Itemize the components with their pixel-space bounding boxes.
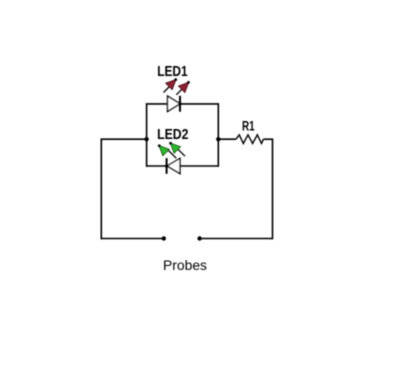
LED1 emission arrows (red) bbox=[164, 78, 190, 95]
LED2 emission arrows (green) bbox=[158, 142, 185, 158]
wire: LED box left side bbox=[146, 103, 148, 167]
wire: left vertical branch bbox=[100, 138, 102, 239]
wire: right vertical branch bbox=[272, 138, 274, 239]
svg-text:LED2: LED2 bbox=[157, 127, 188, 143]
resistor R1 zigzag bbox=[236, 135, 263, 144]
node B: junction dot right of LED pair bbox=[216, 137, 220, 141]
LED1 diode body bbox=[168, 96, 182, 112]
svg-text:R1: R1 bbox=[242, 119, 255, 135]
LED2 diode body bbox=[165, 158, 180, 174]
wire: bottom left segment to left probe bbox=[101, 238, 164, 240]
svg-text:LED1: LED1 bbox=[157, 64, 187, 80]
probe terminal dot left bbox=[162, 236, 166, 240]
node A: junction dot left of LED pair bbox=[144, 137, 148, 141]
wire: LED box right side bbox=[217, 103, 219, 167]
wire: bottom right segment from right probe bbox=[200, 238, 273, 240]
wire: LED box top side bbox=[147, 103, 219, 105]
wire: middle left lead from left branch to LED box bbox=[101, 138, 146, 140]
probe terminal dot right bbox=[197, 236, 201, 240]
wire: lead from resistor R1 to right corner bbox=[263, 138, 272, 140]
wire: LED box bottom side bbox=[147, 165, 219, 167]
wire: lead from node B to resistor R1 bbox=[218, 138, 236, 140]
svg-text:Probes: Probes bbox=[163, 257, 207, 273]
